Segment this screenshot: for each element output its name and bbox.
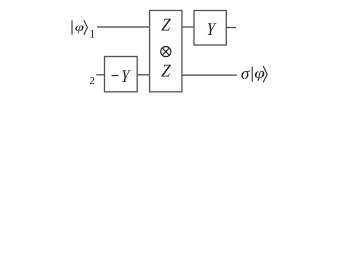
wire: qubit-1 input segment [97,26,150,28]
symbol: tensor product circled-times [161,47,171,57]
svg-text:σ: σ [241,64,250,83]
svg-text:φ: φ [75,21,84,34]
wire: qubit-1 output stub [226,27,236,29]
svg-text:2: 2 [89,75,95,87]
label: minus Y [112,66,132,87]
node: output label sigma|phi> [241,64,267,83]
wire: qubit-2 output segment [182,74,237,76]
svg-text:1: 1 [90,29,96,41]
wire: qubit-2 input segment [96,74,104,76]
gate: Y box [194,11,226,46]
gate: minus-Y box [105,57,138,92]
wire: qubit-1 between U1 and Y gate [182,26,194,28]
wire: qubit-2 between minus-Y and U1 [137,74,149,76]
node: input ket |phi>_1 [72,20,96,40]
gate U1: Z tensor Z box [150,10,182,91]
